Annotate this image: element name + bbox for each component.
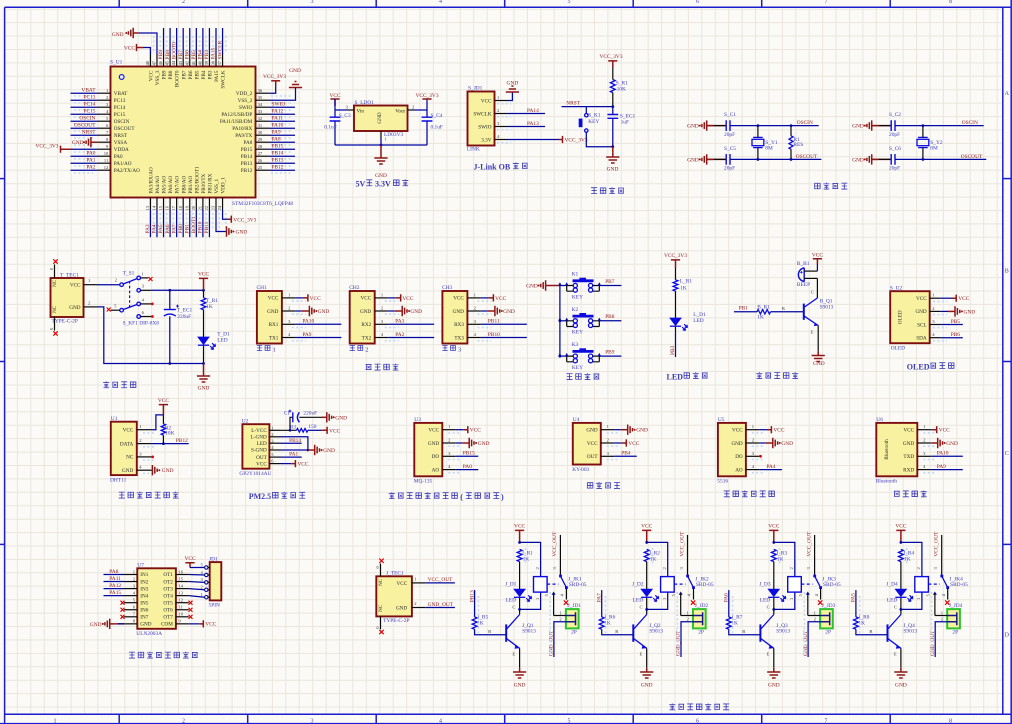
svg-text:GND_OUT: GND_OUT xyxy=(428,602,454,608)
capacitor S_C3 0.1uF xyxy=(324,113,351,130)
capacitor S_C6 20pF xyxy=(889,146,901,172)
svg-text:SWIO: SWIO xyxy=(272,102,286,108)
svg-text:PC14: PC14 xyxy=(114,105,126,111)
wire U6 GND xyxy=(931,442,932,444)
svg-text:PB3: PB3 xyxy=(670,345,676,355)
transistor J_Q2 S9013 xyxy=(633,605,663,657)
no-ERC marker relay NO contact channel 1 xyxy=(564,600,568,604)
svg-text:VCC: VCC xyxy=(297,462,308,468)
resistor R1 RES xyxy=(789,136,803,150)
no-connect switch pin6 xyxy=(151,315,154,318)
wire LED to ground rail xyxy=(203,346,205,364)
wire OLED SCL net PB5 xyxy=(940,324,962,326)
dotted compile marks CH3 xyxy=(477,300,491,302)
led L_D1 LED xyxy=(670,312,706,330)
caption key circuit xyxy=(566,374,572,380)
power ground GND at CH2 xyxy=(395,306,422,316)
svg-text:NC: NC xyxy=(52,305,58,313)
svg-text:38: 38 xyxy=(211,60,216,65)
svg-text:GND: GND xyxy=(410,309,422,315)
svg-text:VCC: VCC xyxy=(453,296,464,302)
no-ERC marker relay NO contact channel 4 xyxy=(945,600,949,604)
svg-text:NRST: NRST xyxy=(566,100,580,106)
wire U1 pin 23 VSS_1 to GND xyxy=(216,210,226,232)
wire S_C2 to OSCIN xyxy=(895,125,984,127)
power port VCC power circuit xyxy=(198,272,209,291)
wire emitter to GND xyxy=(817,326,819,352)
dotted compile marks U4 xyxy=(607,432,620,434)
svg-text:K3: K3 xyxy=(572,342,579,348)
wire U5 AO net PA4 xyxy=(759,469,782,471)
svg-text:46: 46 xyxy=(158,60,163,65)
svg-text:TX3: TX3 xyxy=(454,335,464,341)
connector T_TEC1 TYPE-C-2P xyxy=(49,265,97,331)
svg-text:D: D xyxy=(1005,633,1010,639)
svg-text:8: 8 xyxy=(949,718,952,724)
svg-text:25: 25 xyxy=(258,165,263,170)
svg-text:SWCLK: SWCLK xyxy=(217,41,223,60)
wire relay NC contact channel 3 xyxy=(806,592,810,595)
svg-text:GND: GND xyxy=(318,309,330,315)
junction S-GND xyxy=(307,449,310,452)
junction arrows K3 xyxy=(558,353,561,356)
svg-text:17: 17 xyxy=(171,205,176,210)
svg-text:B_B1: B_B1 xyxy=(797,261,810,267)
svg-text:4: 4 xyxy=(439,0,442,5)
svg-text:PA8: PA8 xyxy=(109,569,118,575)
svg-text:220uF: 220uF xyxy=(177,314,191,320)
junction ground rail xyxy=(611,145,614,148)
wire VCC_3V3 to resistor S_R1 xyxy=(612,67,614,80)
wire CH3 TX3 net PB10 xyxy=(481,337,527,339)
junction R1 xyxy=(790,124,793,127)
svg-text:VCC: VCC xyxy=(628,441,639,447)
svg-text:OSCIN: OSCIN xyxy=(962,120,978,126)
svg-text:RX2: RX2 xyxy=(361,322,371,328)
power port VCC at JD1 pin5 xyxy=(184,556,195,568)
svg-text:PA12: PA12 xyxy=(109,583,121,589)
svg-text:PB13: PB13 xyxy=(272,158,284,164)
wire U4 OUT net PB4 xyxy=(614,455,637,457)
wire T_TEC1 pin2 ground rail xyxy=(97,307,204,364)
power port VCC at R3 xyxy=(322,427,340,435)
svg-text:SWCLK: SWCLK xyxy=(473,111,491,117)
wire U3 AO net PA0 xyxy=(456,469,479,471)
resistor J_R1 1K xyxy=(517,549,533,562)
wire S_R1 to NRST node xyxy=(612,93,614,107)
wire J_R7 to base of J_Q3 xyxy=(729,629,761,635)
wires U7 OT1-OT4 to JD1 xyxy=(189,574,205,577)
relay J_JK4 SRD-05 xyxy=(915,567,968,601)
power ground GND at cap S_C2 xyxy=(852,120,878,130)
capacitor S_C5 20pF xyxy=(724,146,736,172)
wire CH1 VCC xyxy=(295,297,303,299)
wire S_C1 to OSCIN xyxy=(730,125,819,127)
dotted compile marks U1 xyxy=(74,95,93,97)
svg-text:LED: LED xyxy=(887,598,898,604)
wire Vout to VCC_3V3 node and cap C4 xyxy=(414,99,428,145)
wire DHT11 DATA net PB12 xyxy=(151,443,188,445)
wire J_TEC1 pin2 net GND_OUT xyxy=(425,607,455,609)
svg-text:PA3: PA3 xyxy=(395,319,404,325)
svg-text:3: 3 xyxy=(311,718,314,724)
svg-text:GND_OUT: GND_OUT xyxy=(676,630,682,656)
svg-text:CH3: CH3 xyxy=(442,285,452,291)
svg-text:NRST: NRST xyxy=(114,133,128,139)
wire VCC node to relay coil J_JK3 xyxy=(774,542,795,576)
svg-text:VCC: VCC xyxy=(329,93,340,99)
svg-text:J_JD4: J_JD4 xyxy=(949,603,963,609)
svg-text:S-GND: S-GND xyxy=(251,448,267,454)
wire key bus to K3 xyxy=(560,355,567,357)
svg-text:PA6/AO: PA6/AO xyxy=(168,176,174,194)
svg-text:LINK: LINK xyxy=(467,147,480,153)
svg-text:E: E xyxy=(811,330,814,335)
svg-text:1uF: 1uF xyxy=(621,119,629,125)
svg-text:C: C xyxy=(894,605,897,610)
svg-text:S9013: S9013 xyxy=(903,629,917,635)
svg-text:IN3: IN3 xyxy=(140,586,148,592)
svg-text:GND_OUT: GND_OUT xyxy=(930,630,936,656)
svg-text:VCC: VCC xyxy=(939,428,950,434)
svg-text:PA11: PA11 xyxy=(272,116,284,122)
svg-text:ULN2003A: ULN2003A xyxy=(136,631,162,637)
svg-text:PB12: PB12 xyxy=(272,165,284,171)
capacitor C1 220uF xyxy=(284,410,317,423)
svg-text:AO: AO xyxy=(735,467,743,473)
svg-text:VCC_3V3: VCC_3V3 xyxy=(35,144,58,150)
svg-text:PA5/AO: PA5/AO xyxy=(162,176,168,194)
svg-text:BOOT1: BOOT1 xyxy=(191,216,197,234)
wire CH3 RX3 net PB11 xyxy=(481,323,527,325)
wire J_R5 to base of J_Q1 xyxy=(475,629,507,635)
label serial3 below CH3 xyxy=(442,345,461,353)
power ground GND at cap S_C6 xyxy=(852,154,878,164)
svg-text:VCC: VCC xyxy=(123,428,134,434)
svg-text:E: E xyxy=(894,652,897,657)
svg-text:OLED: OLED xyxy=(907,362,930,371)
svg-text:35: 35 xyxy=(258,95,263,100)
svg-text:PB14: PB14 xyxy=(289,438,301,444)
wire VCC_OUT to relay common channel 1 xyxy=(559,535,561,575)
svg-text:RX1: RX1 xyxy=(269,322,279,328)
wire JD1 pin4 to VCC_3V3 xyxy=(508,139,559,141)
svg-text:PA10: PA10 xyxy=(272,123,284,129)
svg-text:PA2/TX/AO: PA2/TX/AO xyxy=(114,168,140,174)
svg-text:45: 45 xyxy=(165,60,170,65)
wires U7 inputs PA8 PA11 PA12 PA15 xyxy=(104,574,125,576)
svg-text:5: 5 xyxy=(568,718,571,724)
wire OLED SDA net PB6 xyxy=(940,337,962,339)
svg-text:PB4: PB4 xyxy=(201,70,207,79)
wire J_JD4 pin1 to relay NC contact xyxy=(935,615,947,617)
svg-text:VCC: VCC xyxy=(903,428,914,434)
svg-text:E: E xyxy=(767,652,770,657)
svg-text:3: 3 xyxy=(311,0,314,5)
wire R2 to DATA xyxy=(162,415,164,444)
svg-text:VCC: VCC xyxy=(641,524,652,530)
svg-text:41: 41 xyxy=(191,60,196,65)
svg-text:PA3: PA3 xyxy=(145,224,151,233)
svg-text:PB7: PB7 xyxy=(178,50,184,60)
svg-text:S_C6: S_C6 xyxy=(889,146,901,152)
sensor U2 GP2Y1014AU PM2.5 xyxy=(239,418,280,477)
svg-text:S_C3: S_C3 xyxy=(339,113,351,119)
wire T_TEC1 pin1 to switch T_S1 xyxy=(97,284,120,286)
svg-text:PA9: PA9 xyxy=(302,332,311,338)
power ground GND relay channel 3 xyxy=(767,668,780,689)
wire J_JD4 pin2 net GND_OUT xyxy=(935,622,947,657)
driver U7 ULN2003A xyxy=(124,563,189,637)
svg-text:PA12/USB/DP: PA12/USB/DP xyxy=(221,112,252,118)
junction ground rail at cap xyxy=(168,362,171,365)
svg-text:OT6: OT6 xyxy=(163,607,173,613)
svg-text:5V: 5V xyxy=(356,180,366,189)
svg-text:14: 14 xyxy=(152,205,157,210)
wire CH2 VCC xyxy=(388,297,396,299)
power ground GND at U5 xyxy=(766,438,793,448)
wire PB13 to resistor J_R5 xyxy=(474,590,476,617)
svg-text:PA4: PA4 xyxy=(152,224,158,233)
wire T_EC1 to rails xyxy=(169,290,171,363)
wire VCC to JD1 pin5 xyxy=(190,567,205,569)
svg-text:VCC: VCC xyxy=(268,296,279,302)
dotted compile marks channel 3 xyxy=(732,596,734,634)
svg-text:S_K1: S_K1 xyxy=(588,113,601,119)
capacitor S_C1 20pF xyxy=(724,112,736,138)
wire J_R4 to led J_D4 xyxy=(900,562,902,589)
svg-text:GND: GND xyxy=(852,124,864,130)
svg-text:6: 6 xyxy=(696,718,699,724)
connector J_JD3 2P xyxy=(814,603,836,636)
svg-text:PB3: PB3 xyxy=(204,50,210,60)
svg-text:AO: AO xyxy=(432,467,440,473)
wire PA5 to resistor J_R8 xyxy=(855,590,857,617)
svg-text:VCC: VCC xyxy=(428,428,439,434)
svg-text:VSS_1: VSS_1 xyxy=(214,178,220,193)
wire S_C6 to OSCOUT xyxy=(895,158,986,160)
dotted compile marks channel 1 xyxy=(477,596,479,634)
svg-text:J_TEC1: J_TEC1 xyxy=(386,571,404,577)
connector JD1 5PIN xyxy=(201,556,222,608)
wire GND to S_C2 xyxy=(873,125,891,127)
svg-text:(: ( xyxy=(460,492,463,501)
svg-text:LED: LED xyxy=(633,598,644,604)
resistor J_R8 1K xyxy=(854,614,870,629)
svg-text:PB8: PB8 xyxy=(168,70,174,79)
sensor U5 5516 xyxy=(717,417,759,485)
power port GND at U1 pin 23 xyxy=(226,226,248,236)
mcu U1 STM32F103C8T6_LQFP48 xyxy=(97,55,293,211)
wire PM2.5 VCC xyxy=(281,463,292,465)
svg-text:LED: LED xyxy=(257,441,267,447)
dotted compile marks channel 2 xyxy=(605,596,607,634)
junction VCC node channel 1 xyxy=(518,541,521,544)
svg-text:GND: GND xyxy=(323,448,335,454)
wire relay NC contact channel 4 xyxy=(933,592,937,595)
svg-text:A: A xyxy=(1005,91,1010,97)
svg-text:GND: GND xyxy=(428,441,439,447)
resistor L_R1 1K xyxy=(673,279,692,292)
svg-text:J_D2: J_D2 xyxy=(632,582,644,588)
resistor B_R1 1K xyxy=(757,304,771,320)
wire J_D1 to collector node xyxy=(519,598,521,615)
caption J-Link OB port xyxy=(474,162,528,171)
svg-text:5516: 5516 xyxy=(717,479,728,485)
svg-text:32: 32 xyxy=(258,116,263,121)
svg-text:T_S1: T_S1 xyxy=(123,271,135,277)
wire U1 pin 24 VDD_1 to VCC_3V3 xyxy=(223,210,227,220)
power port VCC at U1 pin 48 xyxy=(124,44,144,51)
svg-text:1K: 1K xyxy=(757,315,764,321)
svg-text:VCC: VCC xyxy=(310,296,321,302)
led J_D2 LED xyxy=(632,582,659,604)
svg-text:43: 43 xyxy=(178,60,183,65)
pushbutton K2 KEY xyxy=(567,307,600,336)
svg-text:PB0/AO: PB0/AO xyxy=(181,175,187,193)
svg-text:20pF: 20pF xyxy=(889,166,900,172)
svg-text:PB7: PB7 xyxy=(605,279,615,285)
power port VCC at DHT11 xyxy=(158,398,169,415)
svg-text:OT2: OT2 xyxy=(163,579,173,585)
svg-text:PA10: PA10 xyxy=(302,319,314,325)
svg-text:GND: GND xyxy=(687,124,699,130)
wire VCC_3V3 to U1 pin 9 xyxy=(71,148,97,150)
wire crystal S_Y2 to OSCIN/OSCOUT rails xyxy=(922,126,924,160)
svg-text:10K: 10K xyxy=(617,86,626,92)
resistor T_R1 1K xyxy=(201,298,218,310)
svg-text:VCC_3V3: VCC_3V3 xyxy=(415,93,438,99)
svg-text:TYPE-C-2P: TYPE-C-2P xyxy=(383,618,409,624)
svg-text:GND: GND xyxy=(236,230,248,236)
svg-text:KEY: KEY xyxy=(572,294,583,300)
power port VCC_3V3 reset circuit xyxy=(599,54,622,67)
wire relay NC contact channel 2 xyxy=(679,592,683,595)
svg-text:KEY: KEY xyxy=(572,330,583,336)
svg-text:PB1/AO: PB1/AO xyxy=(188,175,194,193)
wire U4 GND to GND xyxy=(614,429,621,431)
caption air quality module xyxy=(389,492,504,501)
wire PA6 to resistor J_R7 xyxy=(728,590,730,617)
svg-text:PM2.5: PM2.5 xyxy=(249,492,271,501)
power ground GND at CH1 xyxy=(302,306,329,316)
svg-text:PB5: PB5 xyxy=(951,319,961,325)
wire OLED GND xyxy=(940,310,948,312)
svg-text:J_D1: J_D1 xyxy=(505,582,517,588)
capacitor T_EC1 220uF xyxy=(164,305,193,321)
wire K3 to net PB9 xyxy=(599,355,621,357)
sensor U6 Bluetooth xyxy=(876,417,931,485)
svg-text:GND: GND xyxy=(641,683,653,689)
svg-text:OUT: OUT xyxy=(587,454,598,460)
svg-text:GND: GND xyxy=(503,309,515,315)
svg-text:LED: LED xyxy=(693,318,704,324)
resistor R2 10K pull-up xyxy=(161,424,174,437)
svg-text:10: 10 xyxy=(104,151,109,156)
svg-text:2P: 2P xyxy=(698,630,704,636)
svg-text:OT5: OT5 xyxy=(163,600,173,606)
svg-text:DHT11: DHT11 xyxy=(110,477,127,483)
svg-text:J-Link OB: J-Link OB xyxy=(474,163,511,172)
wire relay coil J_JK4 to collector node xyxy=(901,592,922,609)
no-connect switch pin4 xyxy=(151,303,154,306)
wire PM2.5 LED net PB14 xyxy=(281,442,302,444)
svg-text:20pF: 20pF xyxy=(724,132,735,138)
svg-text:GND: GND xyxy=(267,309,278,315)
svg-text:GND: GND xyxy=(781,441,793,447)
svg-text:PA11: PA11 xyxy=(109,576,121,582)
wire VCC_3V3 to L_R1 xyxy=(675,268,677,280)
junction VCC node xyxy=(202,289,205,292)
wire B_R1 to base of B_Q1 xyxy=(771,311,804,313)
svg-text:PB5: PB5 xyxy=(191,50,197,60)
junction VCC node channel 4 xyxy=(900,541,903,544)
wire NRST node xyxy=(562,106,613,108)
transistor B_Q1 S9013 xyxy=(804,289,834,334)
svg-text:31: 31 xyxy=(258,123,263,128)
power port VCC at U5 xyxy=(767,426,785,434)
svg-text:IN1: IN1 xyxy=(140,572,148,578)
label serial2 below CH2 xyxy=(350,345,369,353)
power port VCC at OLED xyxy=(952,295,970,303)
relay J_JK2 SRD-05 xyxy=(661,567,714,601)
svg-text:29: 29 xyxy=(258,137,263,142)
svg-text:VCC_3V3: VCC_3V3 xyxy=(233,217,256,223)
svg-text:PC13: PC13 xyxy=(84,95,96,101)
svg-text:GND: GND xyxy=(198,385,210,391)
svg-text:PA0: PA0 xyxy=(86,151,95,157)
svg-text:27: 27 xyxy=(258,151,263,156)
svg-text:PB1: PB1 xyxy=(739,306,749,312)
svg-text:C: C xyxy=(640,605,643,610)
svg-text:IN6: IN6 xyxy=(140,607,148,613)
svg-text:S_U2: S_U2 xyxy=(890,285,903,291)
svg-text:VCC: VCC xyxy=(768,524,779,530)
svg-text:11: 11 xyxy=(104,158,109,163)
no-connect DHT11 NC pin xyxy=(151,456,154,459)
svg-text:VCC_OUT: VCC_OUT xyxy=(679,531,685,557)
wire emitter J_Q3 to GND xyxy=(773,648,775,668)
svg-text:39: 39 xyxy=(204,60,209,65)
svg-text:PA7/AO: PA7/AO xyxy=(175,176,181,194)
wire emitter J_Q1 to GND xyxy=(519,648,521,668)
svg-text:VCC: VCC xyxy=(149,70,155,81)
svg-text:PB7: PB7 xyxy=(181,70,187,79)
svg-text:PB11: PB11 xyxy=(204,221,210,233)
dotted compile marks OLED xyxy=(933,300,947,302)
svg-text:GND: GND xyxy=(895,683,907,689)
power port VCC_3V3 at U1 pin 9 VDDA xyxy=(35,144,71,153)
svg-text:PB8: PB8 xyxy=(605,314,615,320)
svg-text:VCC: VCC xyxy=(124,45,135,51)
connector CH3 serial port xyxy=(442,285,481,343)
caption PM2.5 detect module xyxy=(249,492,306,501)
svg-text:GND: GND xyxy=(112,32,124,38)
transistor J_Q3 S9013 xyxy=(760,605,790,657)
wire VCC node to relay coil J_JK2 xyxy=(647,542,668,576)
svg-text:VDD_1: VDD_1 xyxy=(221,177,227,194)
svg-text:VCC_3V3: VCC_3V3 xyxy=(599,54,622,60)
svg-text:S9013: S9013 xyxy=(649,629,663,635)
svg-text:OSCIN: OSCIN xyxy=(79,116,95,122)
sensor U1 DHT11 xyxy=(110,416,151,483)
svg-text:VCC: VCC xyxy=(402,296,413,302)
junction key bus K3 xyxy=(559,355,562,358)
no-ERC marker switch pin5 xyxy=(107,308,111,312)
svg-text:7: 7 xyxy=(825,0,828,5)
svg-text:PB6: PB6 xyxy=(184,50,190,60)
svg-text:PB14: PB14 xyxy=(272,151,284,157)
